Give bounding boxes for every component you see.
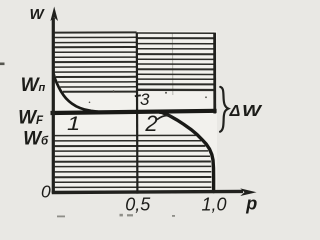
x-axis p <box>52 188 257 196</box>
vertical border at p=1,0 (upper block) <box>213 33 216 114</box>
scan specks <box>0 63 207 104</box>
hatched region upper-right (between p=0.5 line and p=1.0 border) <box>137 33 214 90</box>
hatched region upper-left (between axis, curve 1 and p=0.5 line) <box>55 32 137 91</box>
svg-text:1: 1 <box>67 113 80 134</box>
hatched region lower (W_b block from axis to curve 2) <box>55 135 212 187</box>
tick at node 3 <box>135 94 141 97</box>
svg-text:3: 3 <box>140 90 150 109</box>
svg-text:2: 2 <box>144 111 157 136</box>
svg-text:0,5: 0,5 <box>125 195 151 215</box>
vertical line at p=0,5 <box>136 32 139 193</box>
faint vertical scan fold line <box>171 33 173 95</box>
y-axis W <box>50 7 58 194</box>
svg-text:p: p <box>245 193 257 213</box>
leader line from label 2 to curve 2 <box>157 115 172 119</box>
svg-text:W: W <box>30 6 46 23</box>
svg-text:Δ: Δ <box>229 103 241 120</box>
svg-text:1,0: 1,0 <box>202 195 227 215</box>
W_F horizontal line <box>51 111 217 113</box>
svg-text:W: W <box>242 102 263 120</box>
curve 2 (drop from W_F to zero at p=1,0) <box>160 112 214 191</box>
svg-text:0: 0 <box>41 182 51 202</box>
brace for delta W <box>220 87 228 132</box>
plot interior paper <box>54 31 217 192</box>
curve 1 (decay from W_p to W_F) <box>53 73 106 112</box>
